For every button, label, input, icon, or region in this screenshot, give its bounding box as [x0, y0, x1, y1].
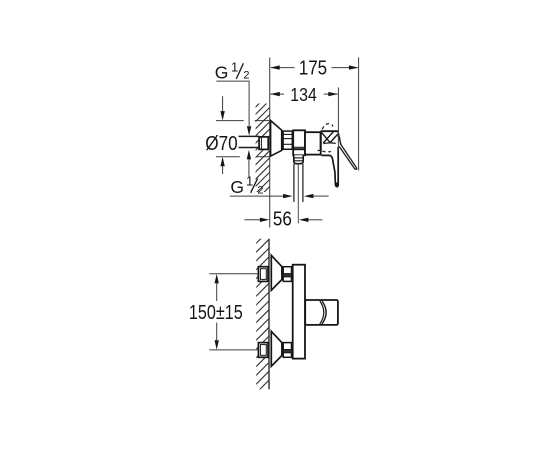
shower outlet elbow below body [294, 155, 303, 163]
svg-text:2: 2 [257, 184, 263, 196]
svg-text:Ø70: Ø70 [205, 133, 237, 155]
supply pipe behind wall [239, 136, 260, 147]
cartridge sleeve [305, 132, 321, 154]
lever blade raised position (thin) [339, 144, 357, 169]
upper escutcheon cone (lower view) [271, 255, 282, 290]
upper hex nut (lower view) [283, 267, 291, 282]
mixer main body [293, 130, 305, 155]
svg-text:150±15: 150±15 [189, 302, 243, 324]
wall hatching (top view) [252, 91, 272, 205]
svg-text:1: 1 [246, 173, 253, 188]
svg-text:G: G [230, 177, 244, 197]
hose centre line (extension for 56 dim) [297, 164, 299, 224]
pipe union square behind wall [259, 137, 268, 150]
svg-text:134: 134 [290, 84, 317, 105]
svg-text:56: 56 [273, 209, 292, 231]
body dark ring band [293, 146, 305, 148]
lower union square (lower view) [258, 343, 268, 358]
leader of lower G1/2 to hose thread [230, 195, 284, 197]
dim 150±15 extension lines [209, 273, 258, 275]
upper union square (lower view) [258, 267, 268, 282]
lower escutcheon cone (lower view) [271, 331, 282, 366]
escutcheon cone (side view, 070) [271, 121, 282, 157]
wall hatching (lower view) [252, 227, 273, 398]
dim 175 [271, 57, 359, 170]
handle dome arcs [322, 301, 326, 324]
dim 134 [337, 87, 339, 150]
dim 070 [216, 96, 270, 174]
mixer body plate (lower view) [293, 265, 305, 359]
lever blade (closed position, solid) [321, 147, 338, 187]
dim 150±15 [216, 284, 218, 302]
svg-text:1: 1 [231, 60, 238, 75]
cartridge/handle cylinder (lower view) [305, 300, 338, 325]
svg-text:175: 175 [299, 58, 328, 80]
opposing arrow at hose right [304, 194, 314, 198]
dashed handle outline (alternate position) [322, 124, 341, 152]
wall face line (lower view) [268, 239, 270, 390]
arrow up to pipe (lower G1/2 leader) [247, 150, 251, 160]
svg-text:G: G [215, 62, 229, 82]
lever hub [318, 131, 341, 150]
wall face line (also extension line for 175 / 134 / 56 dims) [269, 57, 271, 227]
hex nut on escutcheon [283, 131, 292, 149]
lower hex nut (lower view) [283, 343, 291, 358]
leader of upper G1/2 [216, 81, 249, 126]
shower hose nipple lines [293, 164, 295, 202]
dim 56 [244, 219, 260, 221]
svg-text:2: 2 [243, 70, 249, 82]
